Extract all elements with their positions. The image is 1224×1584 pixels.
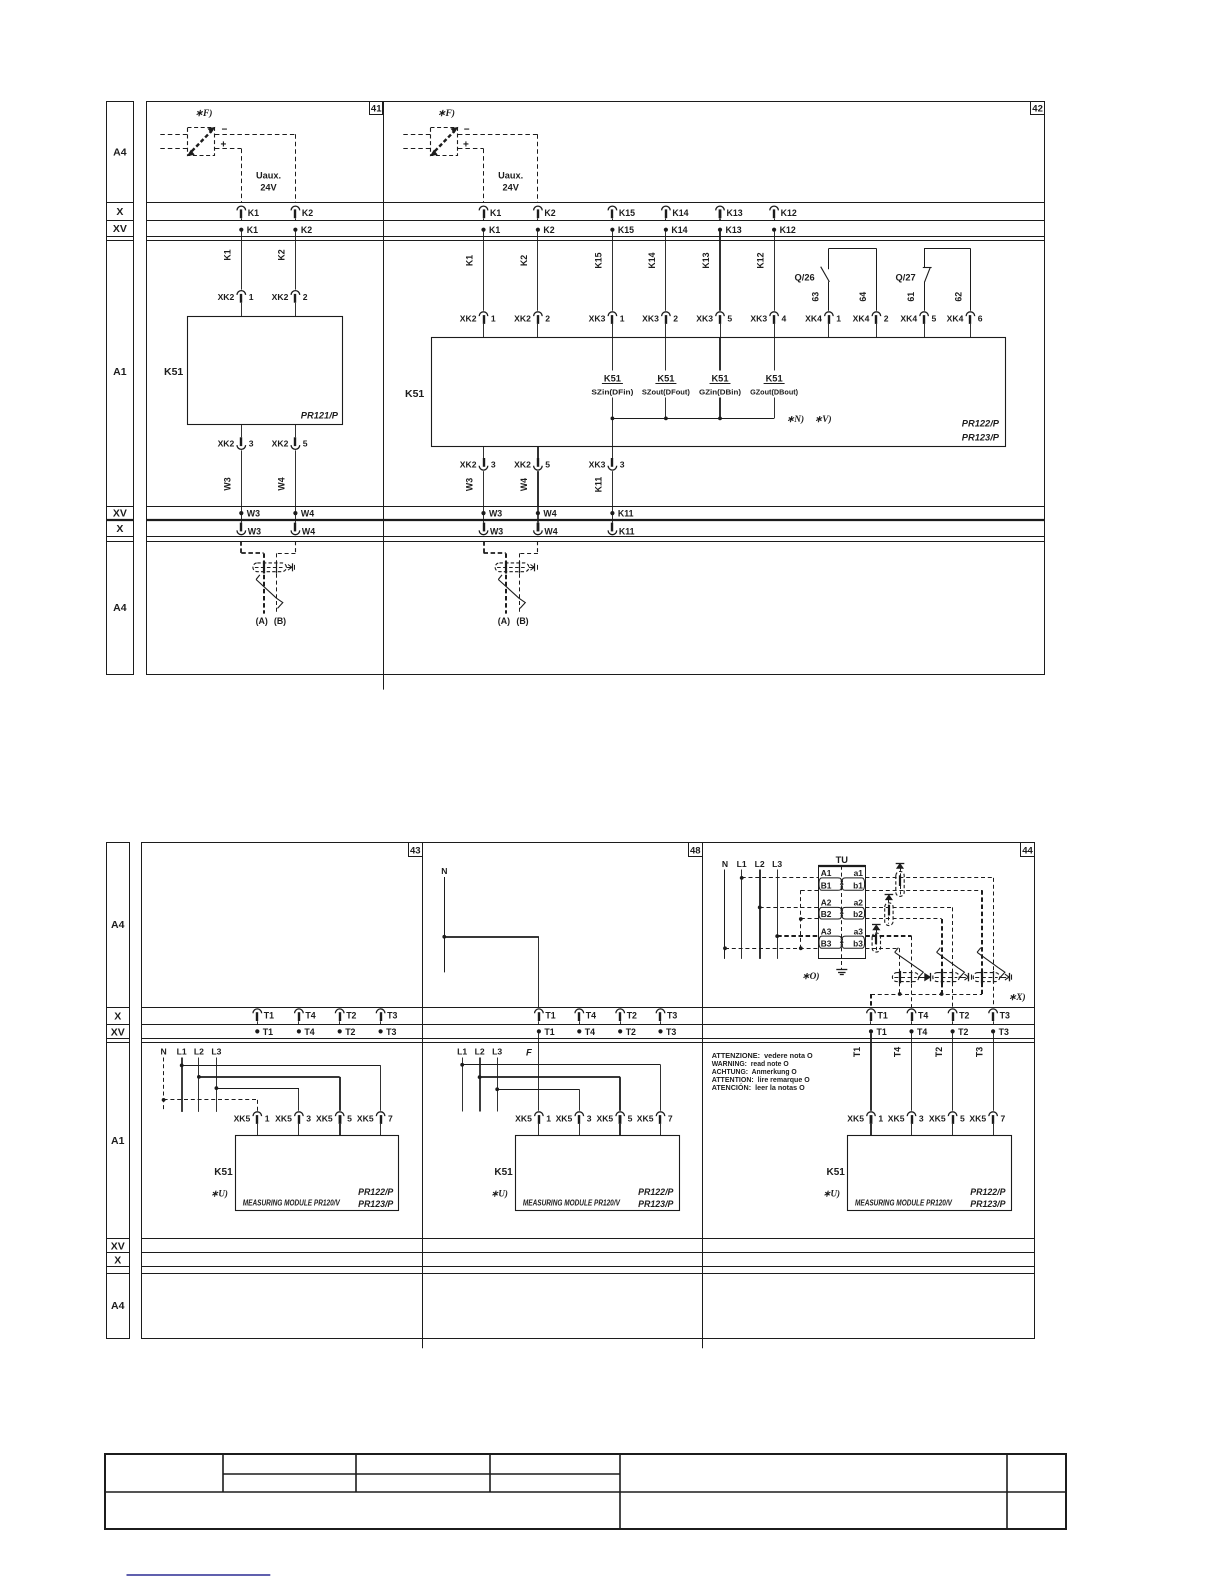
- svg-text:A4: A4: [113, 147, 127, 159]
- svg-text:6: 6: [978, 313, 983, 323]
- svg-text:Uaux.: Uaux.: [256, 171, 281, 181]
- svg-text:GZout(DBout): GZout(DBout): [750, 388, 798, 397]
- svg-text:3: 3: [620, 459, 625, 469]
- svg-text:XK5: XK5: [637, 1113, 654, 1123]
- svg-text:T2: T2: [934, 1047, 944, 1057]
- svg-text:W3: W3: [489, 509, 502, 519]
- svg-text:2: 2: [673, 313, 678, 323]
- svg-text:K51: K51: [766, 374, 783, 384]
- svg-text:PR122/P: PR122/P: [970, 1187, 1005, 1197]
- svg-text:T3: T3: [667, 1011, 677, 1021]
- svg-text:A4: A4: [113, 602, 127, 614]
- svg-text:A4: A4: [111, 1300, 125, 1312]
- svg-text:L3: L3: [772, 859, 782, 869]
- svg-text:5: 5: [303, 439, 308, 449]
- svg-text:W4: W4: [519, 478, 529, 491]
- svg-text:XK5: XK5: [556, 1113, 573, 1123]
- svg-text:XK5: XK5: [316, 1113, 333, 1123]
- svg-text:Q/27: Q/27: [896, 273, 916, 283]
- svg-text:T4: T4: [305, 1011, 315, 1021]
- svg-text:a2: a2: [854, 898, 864, 908]
- svg-text:∗U): ∗U): [211, 1189, 228, 1199]
- svg-text:T1: T1: [263, 1027, 273, 1037]
- svg-text:5: 5: [545, 459, 550, 469]
- svg-text:XK5: XK5: [234, 1113, 251, 1123]
- svg-text:Uaux.: Uaux.: [498, 171, 523, 181]
- svg-text:XK2: XK2: [218, 439, 235, 449]
- svg-text:L2: L2: [755, 859, 765, 869]
- svg-text:K13: K13: [727, 208, 743, 218]
- svg-text:XK4: XK4: [900, 313, 917, 323]
- svg-text:XK2: XK2: [514, 313, 531, 323]
- svg-text:K15: K15: [618, 225, 634, 235]
- svg-text:XK5: XK5: [969, 1113, 986, 1123]
- svg-text:W4: W4: [544, 527, 557, 537]
- svg-text:XK4: XK4: [853, 313, 870, 323]
- svg-text:T4: T4: [893, 1047, 903, 1057]
- svg-text:A3: A3: [821, 926, 832, 936]
- svg-text:61: 61: [906, 292, 916, 302]
- svg-text:T1: T1: [877, 1027, 887, 1037]
- svg-text:(A): (A): [498, 616, 510, 626]
- svg-text:XK3: XK3: [750, 313, 767, 323]
- svg-text:1: 1: [546, 1113, 551, 1123]
- svg-text:PR123/P: PR123/P: [962, 433, 1000, 443]
- svg-text:B2: B2: [821, 909, 832, 919]
- svg-text:3: 3: [587, 1113, 592, 1123]
- svg-text:T4: T4: [918, 1011, 928, 1021]
- svg-text:∗N): ∗N): [787, 414, 805, 425]
- svg-text:X: X: [116, 523, 123, 535]
- svg-text:b1: b1: [853, 881, 863, 891]
- svg-text:T4: T4: [585, 1027, 595, 1037]
- svg-text:F: F: [526, 1048, 532, 1059]
- svg-text:2: 2: [545, 313, 550, 323]
- svg-text:B3: B3: [821, 939, 832, 949]
- svg-text:K1: K1: [247, 225, 258, 235]
- svg-text:X: X: [114, 1255, 121, 1267]
- svg-text:T2: T2: [345, 1027, 355, 1037]
- svg-text:K51: K51: [494, 1167, 513, 1178]
- svg-text:A2: A2: [821, 898, 832, 908]
- svg-text:N: N: [441, 866, 447, 876]
- svg-text:48: 48: [690, 845, 701, 856]
- svg-text:SZin(DFin): SZin(DFin): [591, 388, 634, 397]
- svg-text:MEASURING MODULE PR120/V: MEASURING MODULE PR120/V: [855, 1199, 953, 1208]
- svg-text:K51: K51: [214, 1167, 233, 1178]
- svg-text:W4: W4: [301, 509, 314, 519]
- svg-text:4: 4: [782, 313, 787, 323]
- svg-text:T1: T1: [545, 1011, 555, 1021]
- svg-text:A1: A1: [111, 1135, 125, 1147]
- svg-text:K11: K11: [594, 477, 604, 493]
- svg-text:(B): (B): [274, 616, 286, 626]
- svg-text:XK3: XK3: [642, 313, 659, 323]
- svg-text:1: 1: [491, 313, 496, 323]
- svg-text:K51: K51: [711, 374, 728, 384]
- svg-text:3: 3: [919, 1113, 924, 1123]
- svg-text:b2: b2: [853, 909, 863, 919]
- svg-text:2: 2: [303, 292, 308, 302]
- svg-text:W4: W4: [543, 509, 556, 519]
- svg-text:T2: T2: [627, 1011, 637, 1021]
- svg-text:PR122/P: PR122/P: [358, 1187, 393, 1197]
- svg-text:XV: XV: [111, 1026, 125, 1038]
- svg-text:K1: K1: [465, 255, 475, 266]
- svg-text:T3: T3: [974, 1047, 984, 1057]
- svg-text:PR122/P: PR122/P: [638, 1187, 673, 1197]
- svg-text:K15: K15: [594, 252, 604, 268]
- svg-text:W3: W3: [223, 477, 233, 490]
- svg-text:∗V): ∗V): [815, 414, 832, 425]
- svg-text:MEASURING MODULE PR120/V: MEASURING MODULE PR120/V: [523, 1199, 621, 1208]
- svg-text:XK4: XK4: [805, 313, 822, 323]
- svg-text:XK2: XK2: [272, 292, 289, 302]
- svg-text:K2: K2: [302, 208, 313, 218]
- svg-text:T1: T1: [878, 1011, 888, 1021]
- svg-text:K12: K12: [780, 225, 796, 235]
- svg-text:PR121/P: PR121/P: [301, 411, 339, 421]
- svg-text:∗U): ∗U): [823, 1189, 840, 1199]
- svg-text:A4: A4: [111, 919, 125, 931]
- svg-text:T3: T3: [999, 1027, 1009, 1037]
- svg-text:∗F): ∗F): [195, 108, 212, 119]
- svg-text:XK5: XK5: [847, 1113, 864, 1123]
- svg-text:L1: L1: [177, 1047, 187, 1057]
- svg-text:K12: K12: [781, 208, 797, 218]
- svg-text:PR123/P: PR123/P: [638, 1199, 673, 1209]
- svg-text:W3: W3: [247, 509, 260, 519]
- svg-text:3: 3: [306, 1113, 311, 1123]
- svg-text:XK2: XK2: [460, 459, 477, 469]
- svg-text:T1: T1: [852, 1047, 862, 1057]
- svg-text:T2: T2: [346, 1011, 356, 1021]
- svg-text:W3: W3: [490, 527, 503, 537]
- svg-text:W3: W3: [465, 478, 475, 491]
- svg-text:ATENCIÓN: leer la notas O: ATENCIÓN: leer la notas O: [712, 1083, 805, 1092]
- svg-text:K51: K51: [405, 388, 424, 400]
- svg-text:XK5: XK5: [888, 1113, 905, 1123]
- svg-text:N: N: [160, 1047, 166, 1057]
- svg-text:1: 1: [836, 313, 841, 323]
- svg-text:A1: A1: [113, 366, 127, 378]
- svg-text:PR123/P: PR123/P: [970, 1199, 1005, 1209]
- svg-text:T3: T3: [386, 1027, 396, 1037]
- svg-text:XK5: XK5: [929, 1113, 946, 1123]
- svg-text:W3: W3: [248, 527, 261, 537]
- svg-text:43: 43: [410, 845, 421, 856]
- svg-text:K14: K14: [647, 252, 657, 268]
- svg-text:K2: K2: [519, 255, 529, 266]
- svg-text:XK2: XK2: [272, 439, 289, 449]
- svg-text:24V: 24V: [260, 183, 277, 193]
- svg-text:XK5: XK5: [596, 1113, 613, 1123]
- svg-text:W4: W4: [277, 477, 287, 490]
- svg-text:XK2: XK2: [460, 313, 477, 323]
- svg-text:XK2: XK2: [218, 292, 235, 302]
- svg-text:K1: K1: [223, 249, 233, 260]
- svg-text:64: 64: [858, 292, 868, 302]
- svg-text:24V: 24V: [503, 183, 520, 193]
- svg-text:T4: T4: [586, 1011, 596, 1021]
- svg-text:XK5: XK5: [357, 1113, 374, 1123]
- svg-text:(A): (A): [256, 616, 268, 626]
- svg-text:−: −: [222, 125, 228, 136]
- svg-text:2: 2: [884, 313, 889, 323]
- svg-text:K2: K2: [543, 225, 554, 235]
- svg-text:XK5: XK5: [515, 1113, 532, 1123]
- svg-text:T3: T3: [666, 1027, 676, 1037]
- svg-text:XK2: XK2: [514, 459, 531, 469]
- svg-text:5: 5: [932, 313, 937, 323]
- svg-text:∗U): ∗U): [491, 1189, 508, 1199]
- svg-text:T2: T2: [958, 1027, 968, 1037]
- svg-text:XK3: XK3: [589, 313, 606, 323]
- svg-text:K51: K51: [657, 374, 674, 384]
- svg-text:44: 44: [1022, 845, 1033, 856]
- svg-text:63: 63: [811, 292, 821, 302]
- svg-text:a3: a3: [854, 926, 864, 936]
- svg-text:7: 7: [388, 1113, 393, 1123]
- svg-text:MEASURING MODULE PR120/V: MEASURING MODULE PR120/V: [243, 1199, 341, 1208]
- svg-text:XV: XV: [113, 508, 127, 520]
- svg-text:K14: K14: [672, 208, 688, 218]
- svg-text:W4: W4: [302, 527, 315, 537]
- svg-text:T3: T3: [1000, 1011, 1010, 1021]
- svg-text:K2: K2: [301, 225, 312, 235]
- svg-text:K11: K11: [619, 527, 635, 537]
- svg-text:5: 5: [727, 313, 732, 323]
- svg-text:N: N: [722, 859, 728, 869]
- svg-text:T1: T1: [544, 1027, 554, 1037]
- svg-text:7: 7: [1001, 1113, 1006, 1123]
- svg-text:XK4: XK4: [947, 313, 964, 323]
- svg-text:b3: b3: [853, 939, 863, 949]
- svg-text:41: 41: [371, 104, 382, 115]
- svg-text:a1: a1: [854, 868, 864, 878]
- svg-text:PR122/P: PR122/P: [962, 419, 1000, 429]
- svg-text:K2: K2: [544, 208, 555, 218]
- svg-text:L1: L1: [737, 859, 747, 869]
- svg-text:L2: L2: [475, 1047, 485, 1057]
- svg-text:XK3: XK3: [696, 313, 713, 323]
- svg-text:L3: L3: [492, 1047, 502, 1057]
- svg-text:XV: XV: [113, 223, 127, 235]
- svg-text:K14: K14: [671, 225, 687, 235]
- svg-text:K1: K1: [248, 208, 259, 218]
- svg-text:Q/26: Q/26: [795, 273, 815, 283]
- svg-text:5: 5: [347, 1113, 352, 1123]
- svg-text:GZin(DBin): GZin(DBin): [699, 388, 741, 397]
- svg-text:1: 1: [620, 313, 625, 323]
- svg-text:1: 1: [265, 1113, 270, 1123]
- svg-text:L2: L2: [194, 1047, 204, 1057]
- svg-text:3: 3: [491, 459, 496, 469]
- svg-text:∗X): ∗X): [1009, 992, 1026, 1003]
- svg-text:K1: K1: [490, 208, 501, 218]
- svg-text:7: 7: [668, 1113, 673, 1123]
- svg-text:T4: T4: [304, 1027, 314, 1037]
- svg-text:1: 1: [878, 1113, 883, 1123]
- svg-text:∗F): ∗F): [438, 108, 455, 119]
- svg-text:SZout(DFout): SZout(DFout): [642, 388, 690, 397]
- svg-text:XV: XV: [111, 1241, 125, 1253]
- svg-text:5: 5: [628, 1113, 633, 1123]
- svg-text:TU: TU: [836, 855, 849, 865]
- svg-text:T2: T2: [626, 1027, 636, 1037]
- svg-text:K15: K15: [619, 208, 635, 218]
- svg-text:−: −: [464, 125, 470, 136]
- svg-text:T3: T3: [387, 1011, 397, 1021]
- svg-text:K1: K1: [489, 225, 500, 235]
- svg-text:42: 42: [1032, 104, 1043, 115]
- svg-text:(B): (B): [516, 616, 528, 626]
- svg-text:B1: B1: [821, 881, 832, 891]
- svg-text:K51: K51: [164, 366, 183, 378]
- svg-text:K11: K11: [618, 509, 634, 519]
- svg-text:1: 1: [249, 292, 254, 302]
- svg-text:3: 3: [249, 439, 254, 449]
- svg-text:XK3: XK3: [589, 459, 606, 469]
- svg-text:K13: K13: [726, 225, 742, 235]
- svg-text:PR123/P: PR123/P: [358, 1199, 393, 1209]
- svg-text:L1: L1: [457, 1047, 467, 1057]
- svg-text:T2: T2: [959, 1011, 969, 1021]
- svg-text:A1: A1: [821, 868, 832, 878]
- svg-text:XK5: XK5: [275, 1113, 292, 1123]
- svg-text:T4: T4: [917, 1027, 927, 1037]
- svg-text:X: X: [114, 1011, 121, 1023]
- svg-text:K51: K51: [604, 374, 621, 384]
- svg-text:L3: L3: [211, 1047, 221, 1057]
- svg-text:K12: K12: [755, 252, 765, 268]
- svg-text:62: 62: [954, 292, 964, 302]
- svg-text:K51: K51: [827, 1167, 846, 1178]
- svg-text:K2: K2: [277, 249, 287, 260]
- svg-text:∗O): ∗O): [802, 971, 820, 982]
- svg-text:X: X: [116, 206, 123, 218]
- svg-text:K13: K13: [701, 252, 711, 268]
- svg-text:T1: T1: [264, 1011, 274, 1021]
- svg-text:5: 5: [960, 1113, 965, 1123]
